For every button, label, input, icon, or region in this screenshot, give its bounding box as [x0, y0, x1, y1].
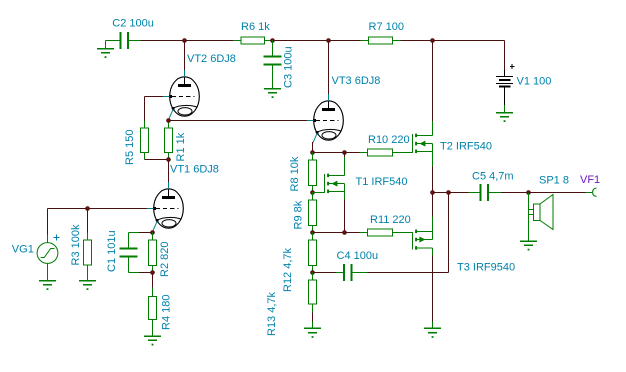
svg-text:R7 100: R7 100 — [369, 21, 404, 33]
svg-text:T3 IRF9540: T3 IRF9540 — [457, 262, 515, 274]
svg-text:R2 820: R2 820 — [159, 242, 171, 277]
svg-text:C4 100u: C4 100u — [337, 250, 379, 262]
svg-text:R13 4,7k: R13 4,7k — [266, 291, 278, 336]
svg-text:C5 4,7m: C5 4,7m — [472, 171, 514, 183]
svg-text:C1 101u: C1 101u — [106, 230, 118, 272]
svg-text:R5 150: R5 150 — [124, 130, 136, 165]
svg-text:R12 4,7k: R12 4,7k — [282, 247, 294, 292]
svg-text:R1 1k: R1 1k — [175, 132, 187, 161]
svg-text:VT3 6DJ8: VT3 6DJ8 — [332, 75, 381, 87]
svg-text:R4 180: R4 180 — [161, 295, 173, 330]
svg-text:VG1: VG1 — [12, 243, 34, 255]
svg-text:T1 IRF540: T1 IRF540 — [356, 176, 408, 188]
svg-text:R9 8k: R9 8k — [293, 200, 305, 229]
svg-text:C3 100u: C3 100u — [283, 46, 295, 88]
svg-text:VT2 6DJ8: VT2 6DJ8 — [187, 53, 236, 65]
svg-text:R10 220: R10 220 — [368, 134, 410, 146]
svg-text:VT1 6DJ8: VT1 6DJ8 — [170, 164, 219, 176]
svg-text:R6 1k: R6 1k — [241, 21, 270, 33]
svg-text:VF1: VF1 — [580, 174, 600, 186]
svg-text:V1 100: V1 100 — [517, 76, 552, 88]
svg-text:R3 100k: R3 100k — [70, 224, 82, 265]
svg-text:R8 10k: R8 10k — [289, 156, 301, 191]
svg-text:C2 100u: C2 100u — [112, 18, 154, 30]
svg-text:SP1 8: SP1 8 — [539, 175, 569, 187]
svg-text:R11 220: R11 220 — [370, 214, 411, 226]
svg-text:T2 IRF540: T2 IRF540 — [440, 141, 492, 153]
